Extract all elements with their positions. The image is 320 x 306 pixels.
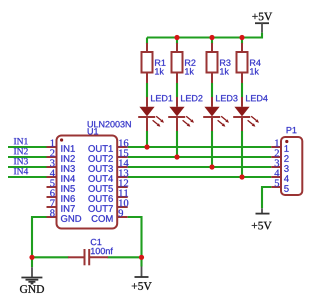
U1 pin 12 [88, 179, 128, 191]
wire COM net (pin9 to +5V rail) [128, 217, 142, 257]
junction C1-+5V [139, 255, 144, 260]
wire P1 pin5 to +5V [262, 187, 271, 208]
P1 pin 4 [271, 169, 289, 181]
wire +5V top rail [147, 33, 262, 38]
U1 pin 9 COM [92, 209, 128, 221]
wire LED3-out3 [211, 131, 213, 167]
capacitor C1 [68, 239, 113, 265]
node IN3 [14, 158, 28, 164]
U1 pin 5 [47, 180, 75, 192]
wire IN4 [8, 176, 47, 178]
connector P1 [281, 127, 302, 195]
U1 pin 3 [47, 159, 75, 171]
U1 pin 14 [88, 159, 128, 171]
junction OUT2-LED2 [174, 154, 179, 159]
wire OUT2 bus [128, 156, 272, 158]
node IN2 [14, 148, 28, 154]
U1 pin 16 [88, 139, 128, 151]
power +5V (bottom right) [252, 208, 272, 229]
IC U1 ULN2003N [57, 121, 131, 228]
junction rail-R4 [239, 35, 244, 40]
wire LED1-out1 [146, 131, 148, 147]
wire R3 top lead [211, 38, 213, 45]
wire OUT4 bus [128, 176, 272, 178]
resistor R4 [237, 43, 261, 84]
U1 pin 6 [47, 189, 75, 201]
U1 pin 11 [88, 189, 128, 201]
U1 pin 15 [88, 149, 128, 161]
LED LED4 [233, 95, 267, 131]
P1 pin 2 [271, 149, 288, 161]
wire R2-LED2 [176, 83, 178, 98]
U1 pin 8 GND [47, 209, 82, 221]
U1 pin 2 [47, 149, 75, 161]
LED LED3 [203, 95, 237, 131]
wire bottom rail right [108, 256, 142, 258]
wire GND net (pin8 to ground) [32, 217, 47, 257]
junction OUT1-LED1 [144, 144, 149, 149]
wire IN1 [8, 146, 47, 148]
P1 pin 5 [271, 180, 288, 192]
LED LED2 [168, 95, 202, 131]
junction rail-R2 [174, 35, 179, 40]
U1 pin 7 [47, 200, 75, 212]
U1 pin 1 [47, 139, 75, 151]
wire LED4-out4 [241, 131, 243, 177]
U1 pin 10 [88, 199, 128, 211]
junction GND-C1 [29, 255, 34, 260]
wire bottom rail left [32, 256, 69, 258]
power +5V (bottom center) [132, 257, 152, 290]
wire R1-LED1 [146, 83, 148, 98]
junction OUT4-LED4 [239, 174, 244, 179]
ground GND [20, 257, 44, 293]
wire IN3 [8, 166, 47, 168]
resistor R1 [142, 43, 166, 84]
wire OUT1 bus [128, 146, 272, 148]
wire R4-LED4 [241, 83, 243, 98]
resistor R2 [172, 43, 196, 84]
LED LED1 [138, 95, 172, 131]
wire R3-LED3 [211, 83, 213, 98]
U1 pin 4 [47, 169, 76, 181]
wire R2 top lead [176, 38, 178, 45]
wire LED2-out2 [176, 131, 178, 157]
node IN1 [14, 138, 28, 144]
power +5V (top right) [252, 13, 272, 33]
wire OUT3 bus [128, 166, 272, 168]
node IN4 [14, 168, 28, 174]
P1 pin 1 [271, 139, 288, 151]
U1 pin 13 [88, 169, 128, 181]
wire R4 top lead [241, 38, 243, 45]
resistor R3 [207, 43, 231, 84]
junction OUT3-LED3 [209, 164, 214, 169]
junction rail-R3 [209, 35, 214, 40]
wire R1 top lead [146, 38, 148, 45]
wire IN2 [8, 156, 47, 158]
P1 pin 3 [271, 159, 288, 171]
